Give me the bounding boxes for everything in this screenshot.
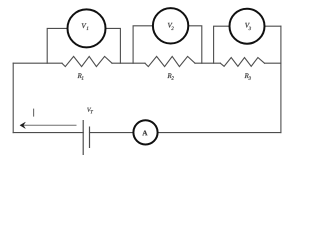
voltmeter V1 [68,9,106,47]
current arrow I shaft [23,124,77,126]
wire top-right horizontal [265,62,281,64]
wire top-left horizontal [13,62,62,64]
resistor R2 [145,56,195,66]
wire V2 right lead [188,26,202,63]
wire V1 left lead [47,28,67,63]
wire V1 right lead [106,28,121,63]
wire between R2 and R3 [195,62,220,64]
resistor R1 [62,56,112,66]
voltmeter V3 [230,9,265,44]
label R1 [78,73,84,79]
voltmeter V2 [153,8,188,43]
wire battery to ammeter [90,132,134,134]
label R3 [245,73,251,79]
wire V3 left lead [214,26,230,63]
wire V3 right lead [265,25,281,27]
label A [142,131,147,136]
label V3 [245,23,251,30]
battery VT short plate [89,127,91,149]
wire left vertical [12,63,14,132]
label R2 [167,73,173,79]
label V2 [168,23,174,30]
wire bottom-left to battery [13,132,83,134]
ammeter A [133,120,157,144]
label I [33,109,35,117]
wire ammeter to right corner [158,132,281,134]
wire V2 left lead [133,26,153,63]
resistor R3 [220,58,264,67]
wire right vertical [280,26,282,132]
battery VT long plate [82,120,84,155]
current arrow I head [20,122,26,128]
label V1 [82,23,88,29]
wire between R1 and R2 [112,62,145,64]
label VT [87,108,93,114]
